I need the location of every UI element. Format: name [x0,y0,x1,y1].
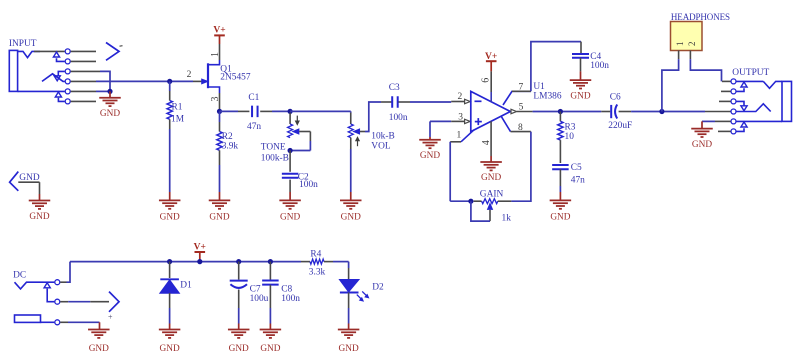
svg-text:GND: GND [89,344,109,354]
svg-text:V+: V+ [485,52,497,62]
svg-text:R3: R3 [565,122,576,132]
svg-text:C1: C1 [248,93,259,103]
svg-text:R4: R4 [310,250,321,260]
svg-text:V+: V+ [194,242,206,252]
svg-text:220uF: 220uF [608,121,632,131]
svg-text:R2: R2 [222,132,233,142]
svg-text:DC: DC [13,270,26,280]
svg-text:LM386: LM386 [533,92,561,102]
svg-text:C8: C8 [281,285,292,295]
svg-text:GND: GND [160,344,180,354]
svg-text:GND: GND [692,140,712,150]
svg-text:GND: GND [100,109,120,119]
svg-text:VOL: VOL [371,142,391,152]
svg-text:100n: 100n [299,180,318,190]
svg-text:5: 5 [519,103,524,113]
svg-text:100n: 100n [281,294,300,304]
svg-text:10k-B: 10k-B [371,132,394,142]
svg-text:100n: 100n [590,61,609,71]
svg-text:3: 3 [210,97,221,102]
svg-text:10: 10 [565,132,575,142]
svg-text:100n: 100n [389,113,408,123]
svg-text:D2: D2 [372,283,384,293]
svg-text:GND: GND [550,213,570,223]
svg-text:GAIN: GAIN [480,190,504,200]
svg-text:1: 1 [457,131,462,141]
svg-text:GND: GND [481,173,501,183]
svg-text:2: 2 [187,70,192,80]
svg-text:1k: 1k [502,214,512,224]
svg-text:GND: GND [160,213,180,223]
svg-text:6: 6 [480,78,491,83]
svg-text:1M: 1M [171,114,185,124]
svg-text:3.3k: 3.3k [309,268,326,278]
svg-text:C7: C7 [250,285,261,295]
svg-text:GND: GND [280,213,300,223]
svg-text:1: 1 [210,52,221,57]
svg-text:100k-B: 100k-B [261,153,289,163]
svg-text:INPUT: INPUT [9,39,37,49]
svg-text:2: 2 [687,42,697,47]
svg-text:GND: GND [420,151,440,161]
svg-text:GND: GND [341,213,361,223]
svg-text:47n: 47n [571,175,585,185]
svg-text:2: 2 [458,92,463,102]
svg-text:C6: C6 [610,92,621,102]
svg-text:+: + [108,312,113,321]
svg-text:100u: 100u [250,294,269,304]
svg-text:3.9k: 3.9k [222,142,239,152]
svg-text:HEADPHONES: HEADPHONES [671,12,730,22]
svg-text:TONE: TONE [261,143,286,153]
svg-text:V+: V+ [213,26,225,36]
svg-text:4: 4 [481,140,492,145]
svg-text:C3: C3 [389,83,400,93]
svg-text:R1: R1 [172,103,183,113]
svg-text:2N5457: 2N5457 [220,72,251,82]
svg-text:3: 3 [458,112,463,122]
svg-text:GND: GND [339,344,359,354]
svg-text:7: 7 [519,83,524,93]
svg-text:GND: GND [570,91,590,101]
svg-text:GND: GND [229,344,249,354]
svg-text:GND: GND [209,213,229,223]
svg-text:1: 1 [675,42,685,47]
svg-text:8: 8 [518,123,523,133]
svg-text:GND: GND [29,212,49,222]
svg-text:OUTPUT: OUTPUT [732,68,769,78]
svg-text:D1: D1 [180,281,192,291]
svg-text:C5: C5 [571,163,582,173]
svg-text:47n: 47n [247,122,261,132]
svg-text:U1: U1 [533,82,545,92]
svg-text:GND: GND [260,344,280,354]
